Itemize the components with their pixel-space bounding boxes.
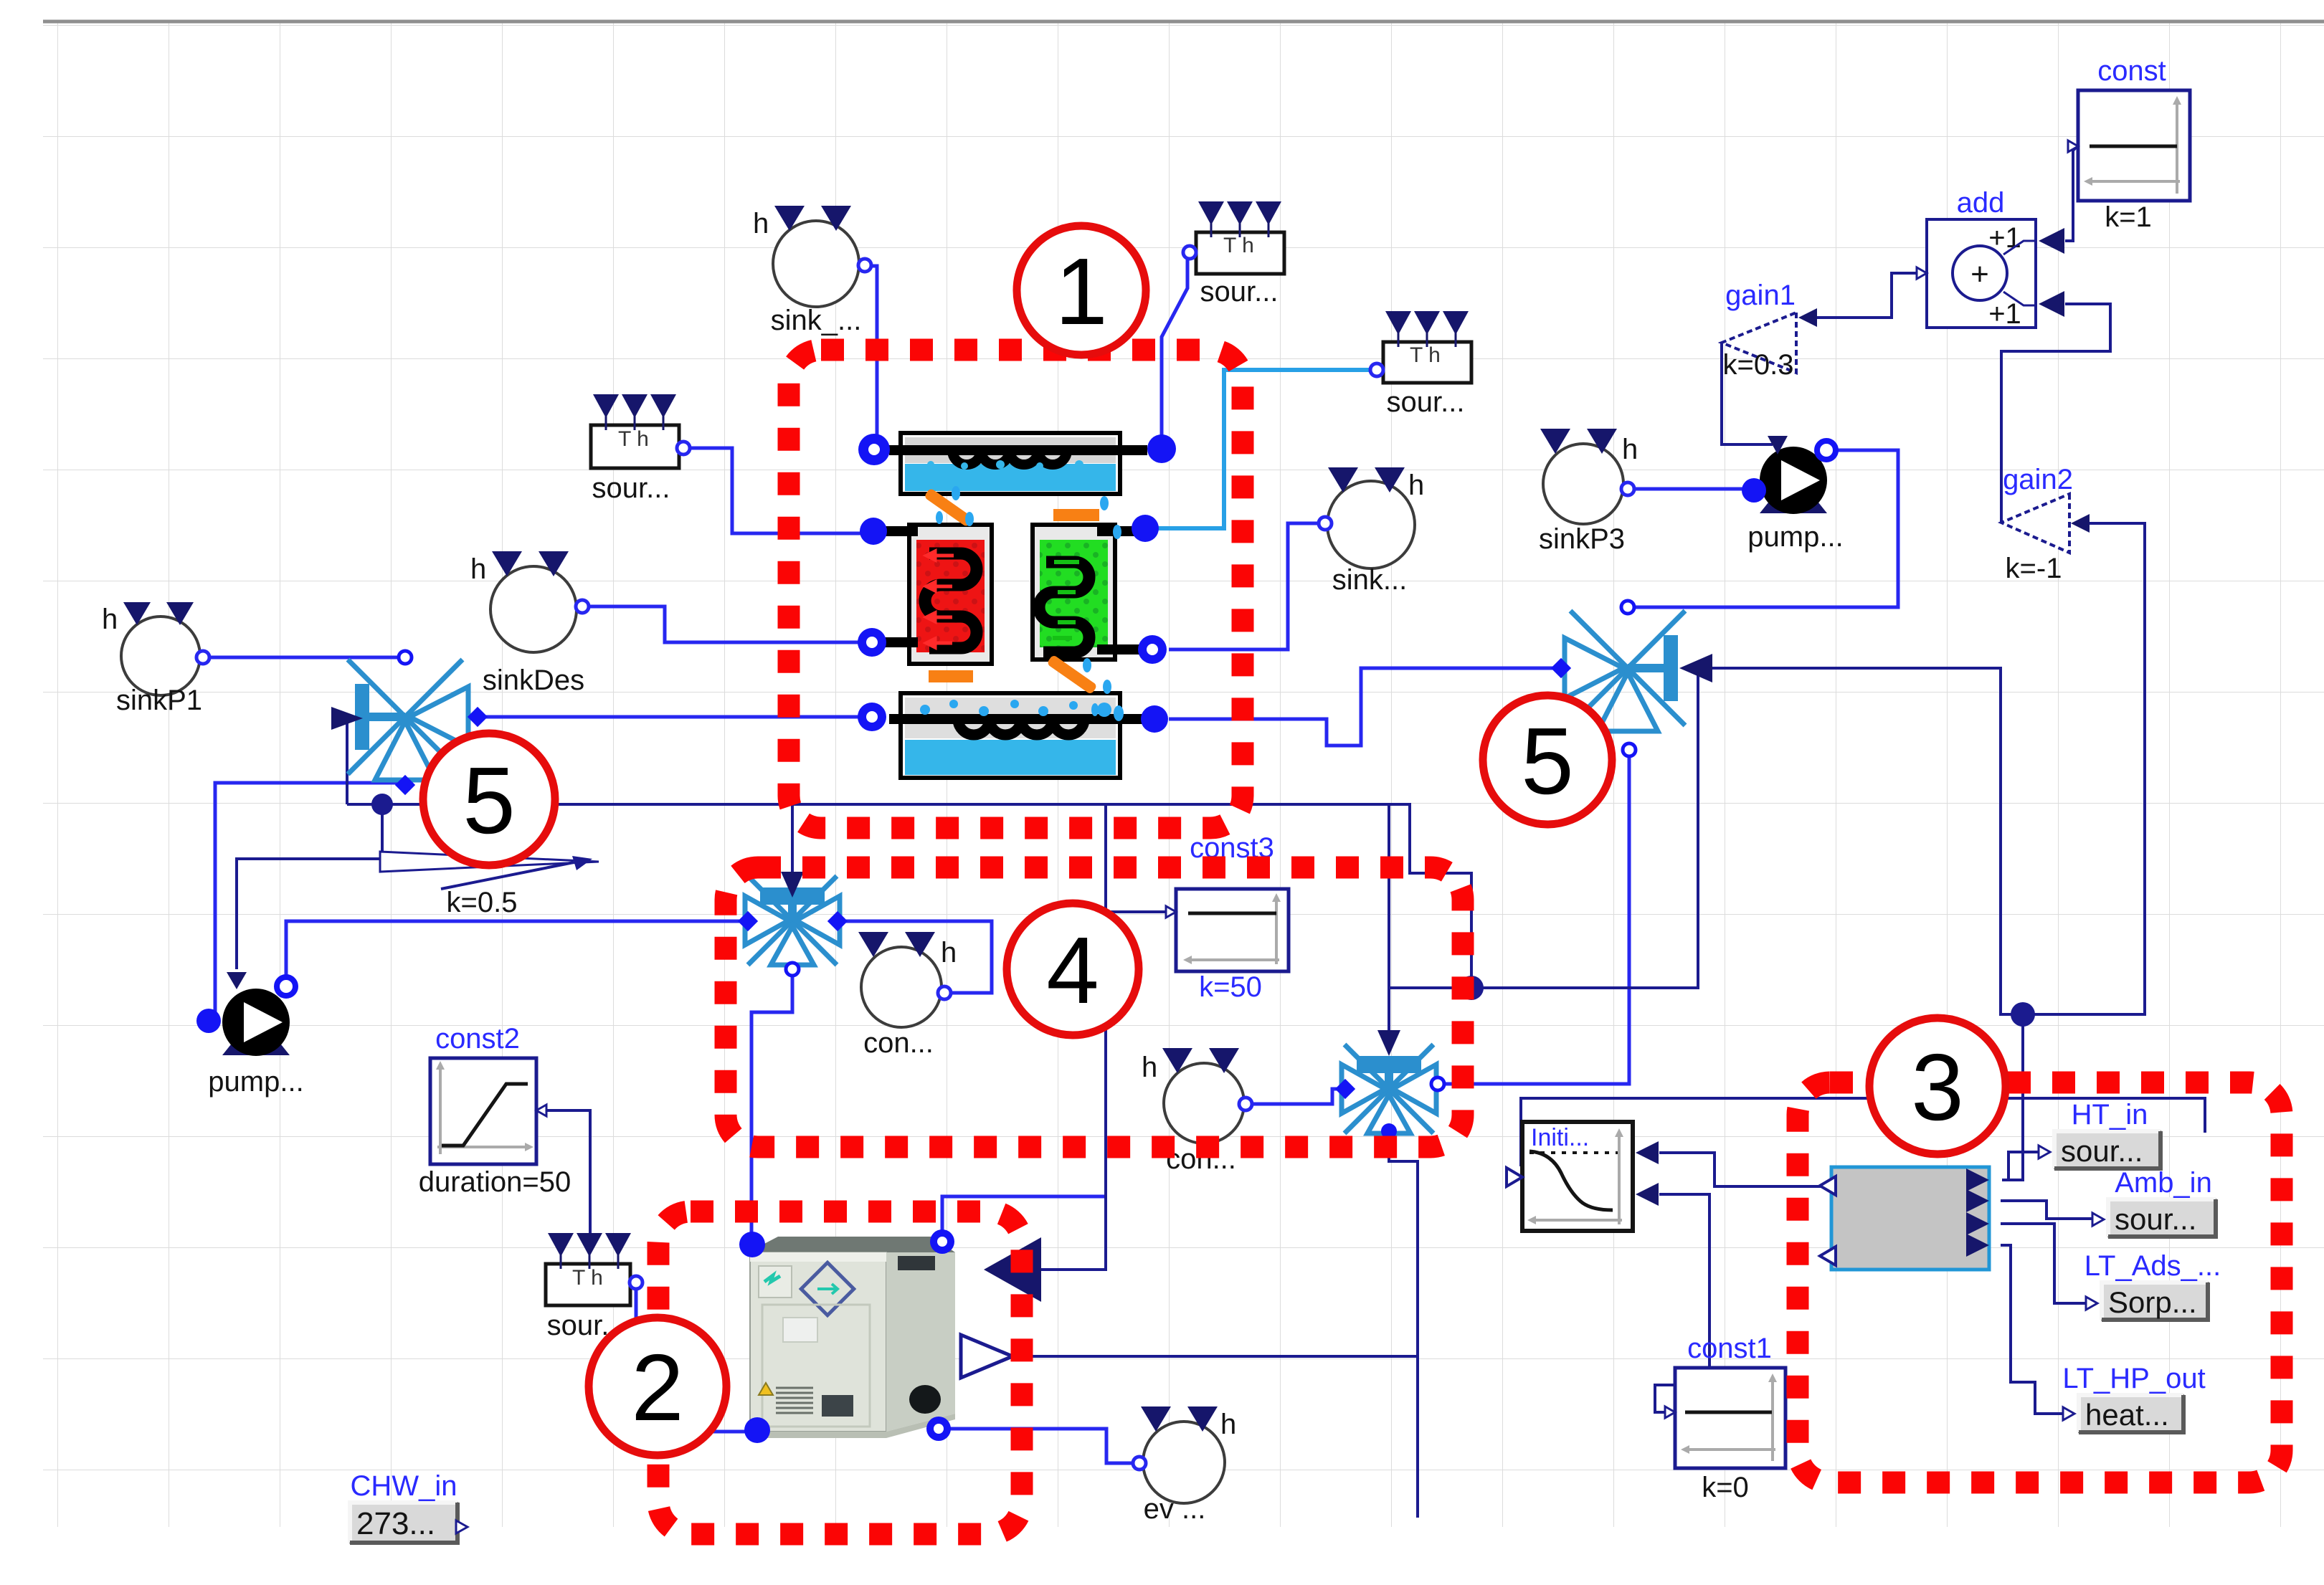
svg-text:sour.: sour. — [547, 1310, 610, 1341]
wire adsorber bottom-right port to sink... — [1169, 523, 1323, 649]
wire adsorber top-right port to sour3 (light blue) — [1147, 370, 1371, 528]
svg-text:sinkP1: sinkP1 — [116, 685, 202, 716]
valve V5R (three-way, handle right) — [1565, 611, 1685, 731]
svg-text:k=-1: k=-1 — [2006, 553, 2062, 584]
svg-text:2: 2 — [631, 1335, 683, 1440]
svg-text:T h: T h — [618, 427, 649, 451]
wire branch to valve V5L actuator arrow — [346, 723, 348, 804]
svg-text:h: h — [102, 604, 118, 635]
svg-text:Amb_in: Amb_in — [2115, 1167, 2212, 1199]
water droplets — [936, 486, 1124, 721]
marker circle 3 — [1869, 1018, 2006, 1154]
sink sink... (middle) — [1319, 467, 1424, 596]
sink sinkP3 — [1539, 429, 1638, 555]
block const1 (k=0) — [1665, 1333, 1785, 1503]
svg-text:1: 1 — [1055, 239, 1107, 344]
svg-text:const1: const1 — [1687, 1333, 1772, 1364]
chiller port bottom-left (filled) — [744, 1417, 770, 1443]
svg-text:T h: T h — [1223, 234, 1254, 257]
port desorber bottom-left (donut) — [858, 628, 886, 657]
gain gain1 (k=0.3) — [1722, 280, 1817, 381]
valve V5R connectors — [1621, 601, 1634, 614]
wire k=0.5 block to pump2 actuator — [237, 859, 394, 969]
valve V5L (three-way, handle left) — [348, 660, 468, 780]
svg-text:k=0.3: k=0.3 — [1723, 349, 1794, 381]
junction dot valve V5R signal — [2011, 1002, 2035, 1027]
svg-text:T h: T h — [572, 1266, 603, 1290]
svg-text:HT_in: HT_in — [2072, 1099, 2148, 1131]
svg-text:sink...: sink... — [1332, 564, 1407, 596]
canvas top border — [43, 20, 2324, 24]
svg-text:Sorp...: Sorp... — [2108, 1285, 2197, 1319]
svg-text:k=50: k=50 — [1199, 971, 1262, 1003]
button sour (Amb_in) — [2092, 1167, 2216, 1237]
marker circle 5 left — [423, 733, 555, 865]
red dashed box 2 — [658, 1212, 1022, 1534]
wire const output down to add input 1 — [2065, 147, 2077, 241]
svg-text:sinkDes: sinkDes — [483, 665, 584, 696]
wire junction to valve V5R actuator line — [1471, 670, 1698, 988]
svg-text:h: h — [1622, 434, 1638, 465]
wire gray box input 4 to heat button — [2001, 1245, 2074, 1414]
svg-text:pump...: pump... — [1747, 521, 1843, 553]
gain gain2 (k=-1) — [2001, 464, 2090, 584]
svg-text:const: const — [2097, 55, 2166, 87]
button heat (LT_HP_out) — [2062, 1363, 2205, 1432]
pump pump1 (top right) — [1742, 436, 1844, 553]
block const3 (k=50) — [1166, 832, 1289, 1003]
pump pump2 (bottom left) — [196, 972, 304, 1098]
svg-text:k=0.5: k=0.5 — [447, 887, 518, 918]
red dashed box 1 — [789, 350, 1243, 828]
svg-text:+: + — [1970, 257, 1989, 292]
adsorption module evaporator — [889, 693, 1147, 778]
svg-text:4: 4 — [1046, 918, 1099, 1023]
wire valve V5L right to evaporator left port — [479, 715, 859, 719]
chiller port top-right (donut) — [930, 1229, 954, 1254]
svg-text:pump...: pump... — [208, 1066, 303, 1098]
adsorption module condenser — [889, 433, 1147, 494]
wire sink_ to condenser left port — [867, 266, 877, 439]
sink sinkP1 — [102, 602, 209, 716]
svg-text:CHW_in: CHW_in — [351, 1470, 457, 1502]
red dashed box 4 — [726, 867, 1463, 1147]
junction dot net const3 right — [1459, 976, 1484, 1000]
wire gray box output to Initi top input — [1659, 1153, 1831, 1186]
block const (k=1) — [2068, 55, 2190, 233]
wire valve V5L bottom to pump2 inlet — [210, 783, 405, 1021]
svg-text:con...: con... — [863, 1027, 934, 1059]
wire valve V4b bottom stub — [1389, 1136, 1418, 1356]
wire sinkP1 to valve V5L top — [199, 656, 404, 660]
valve V4b (box 4 right, handle top) — [1342, 1044, 1436, 1133]
source sour2 (top) — [1183, 201, 1284, 308]
valve V4a actuator arrow — [781, 872, 804, 898]
wire const1 output to Initi bottom input — [1655, 1194, 1709, 1412]
valve V4a connectors — [738, 911, 758, 931]
adsorption module adsorber green chamber — [1033, 525, 1142, 660]
button Sorp (LT_Ads) — [2085, 1250, 2221, 1320]
wire valve V5R bottom to valve V4b right — [1443, 753, 1629, 1084]
wire con1 to valve V4a right — [843, 921, 992, 993]
wire add output to gain1 input — [1804, 273, 1927, 318]
gray box (sorption controller) — [1820, 1167, 1989, 1270]
svg-text:3: 3 — [1911, 1034, 1963, 1140]
svg-text:LT_HP_out: LT_HP_out — [2062, 1363, 2205, 1394]
svg-text:5: 5 — [463, 748, 515, 853]
svg-text:sink_...: sink_... — [771, 305, 862, 336]
svg-text:h: h — [1142, 1052, 1157, 1083]
orange flow marker bottom-right — [1046, 655, 1097, 695]
chiller actuator arrow (big navy) — [984, 1237, 1041, 1302]
sink ev (bottom) — [1133, 1406, 1236, 1525]
svg-text:k=1: k=1 — [2105, 201, 2152, 233]
sink sinkDes — [470, 551, 589, 696]
svg-text:h: h — [753, 208, 769, 239]
marker circle 1 — [1017, 226, 1146, 355]
sink sink_ (top) — [753, 206, 871, 336]
wire gain2 output to add input 2 — [2001, 304, 2110, 523]
svg-text:h: h — [1220, 1409, 1236, 1440]
svg-text:h: h — [1408, 470, 1424, 501]
valve V4b connectors — [1335, 1079, 1355, 1099]
wire HT_in button to gray box input 1 — [2008, 1152, 2050, 1180]
svg-text:sour...: sour... — [1387, 386, 1465, 418]
wire pump1 outlet to valve V5R top — [1632, 450, 1898, 607]
valve V5L connectors — [399, 651, 412, 664]
marker circle 2 — [589, 1318, 726, 1455]
wire const3 output to valve signal net — [1106, 910, 1172, 913]
wire branch to valve V4b actuator arrow — [1388, 804, 1390, 1037]
wire junction down to gray box input 1 — [2002, 1014, 2023, 1180]
source sour1 (left of module) — [591, 394, 690, 504]
wire chiller top-right port up to signal corner — [942, 1196, 1104, 1232]
svg-text:h: h — [470, 553, 486, 585]
marker circle 5 right — [1483, 695, 1612, 824]
svg-text:duration=50: duration=50 — [419, 1166, 571, 1198]
svg-text:LT_Ads_...: LT_Ads_... — [2085, 1250, 2221, 1282]
button CHW_in (273) — [350, 1470, 468, 1543]
svg-text:273...: 273... — [356, 1506, 435, 1541]
chiller port top-left (filled) — [739, 1232, 765, 1257]
svg-text:h: h — [941, 937, 957, 968]
wire gray box input 3 to Sorp button — [2001, 1224, 2097, 1303]
wire const2 output to sour4 input — [541, 1110, 590, 1242]
block add — [1917, 187, 2064, 330]
chiller photo box 2 — [748, 1237, 955, 1438]
orange flow marker top-right — [1053, 509, 1099, 521]
wire gray box input 2 to Amb_in button — [2001, 1201, 2102, 1219]
svg-text:sour...: sour... — [1200, 276, 1279, 308]
wire sour4 down to chiller bottom-left port — [636, 1288, 747, 1432]
svg-text:5: 5 — [1521, 708, 1573, 814]
valve V4b actuator arrow — [1377, 1030, 1400, 1056]
sink con2 (box 4) — [1142, 1048, 1252, 1175]
sink con1 (box 4) — [858, 932, 957, 1059]
svg-text:sour...: sour... — [2061, 1134, 2143, 1168]
wire valve V5R actuator signal to gain2 input — [1708, 523, 2145, 1014]
svg-text:+1: +1 — [1988, 298, 2021, 330]
svg-text:add: add — [1957, 187, 2005, 219]
svg-text:sinkP3: sinkP3 — [1539, 523, 1625, 555]
svg-text:+1: +1 — [1988, 222, 2021, 254]
wire signal down to chiller actuator arrow — [1041, 804, 1106, 1270]
wire branch to valve V4a actuator arrow — [791, 804, 794, 886]
wire sour1 to desorber top-left port — [683, 448, 860, 533]
wire sour2 to condenser right port — [1162, 254, 1187, 446]
wire branch junction down to gain k=0.5 — [382, 804, 391, 862]
wire pump2 outlet to valve V4a left — [286, 921, 744, 984]
red dashed box 3 — [1798, 1082, 2282, 1482]
svg-text:ev ...: ev ... — [1144, 1493, 1206, 1525]
wire valve V4a bottom to chiller top-left port — [751, 972, 792, 1234]
orange flow marker bottom-left — [929, 670, 973, 682]
wire con2 to valve V4b left — [1248, 1089, 1342, 1104]
block const2 (ramp duration=50) — [419, 1023, 571, 1198]
port adsorber top-right (filled) — [1132, 515, 1159, 542]
svg-text:sour...: sour... — [592, 472, 670, 504]
valve V5L actuator arrow — [331, 707, 363, 730]
svg-text:gain1: gain1 — [1725, 280, 1796, 311]
wire sinkDes to desorber bottom-left port — [579, 606, 859, 642]
button sour (HT_in) — [2039, 1099, 2161, 1168]
svg-text:gain2: gain2 — [2003, 464, 2073, 495]
svg-text:T h: T h — [1410, 343, 1441, 367]
gain k=0.5 block — [380, 852, 599, 918]
orange flow marker top-left — [924, 487, 974, 528]
wire signal net right leg to junction — [347, 804, 1471, 988]
port evaporator right (filled) — [1141, 705, 1168, 733]
port adsorber bottom-right (donut) — [1138, 635, 1167, 664]
wire gain1 output to pump1 actuator — [1722, 343, 1773, 444]
chiller output triangle — [961, 1335, 1012, 1378]
port condenser right (filled) — [1147, 434, 1176, 463]
port desorber top-left (filled) — [860, 518, 887, 545]
valve V5R actuator arrow — [1679, 654, 1712, 682]
source sour3 (right) — [1370, 311, 1471, 418]
wire chiller output triangle right and down — [1012, 1356, 1418, 1518]
svg-text:k=0: k=0 — [1702, 1472, 1749, 1503]
wire chiller bottom-right port to ev circle — [950, 1429, 1136, 1463]
svg-text:const2: const2 — [435, 1023, 520, 1055]
wire Initi output up and right to HT_in — [1521, 1098, 2205, 1166]
port evaporator left (donut) — [858, 703, 886, 731]
adsorption module desorber red chamber — [885, 525, 992, 664]
valve V4a (box 4 left, handle top) — [745, 876, 840, 965]
chiller port bottom-right (donut) — [926, 1417, 951, 1441]
marker circle 4 — [1007, 903, 1139, 1035]
wire sinkP3 to pump1 inlet — [1631, 487, 1751, 491]
wire evaporator right port to valve V5R left — [1169, 668, 1559, 746]
port condenser left (donut) — [858, 434, 890, 465]
source sour4 (bottom, fed by const2) — [546, 1233, 642, 1341]
block Initi (initialization curve) — [1507, 1122, 1659, 1231]
junction dot net const3 left — [371, 794, 393, 815]
svg-text:Initi...: Initi... — [1531, 1124, 1589, 1151]
svg-text:heat...: heat... — [2085, 1398, 2169, 1432]
svg-text:sour...: sour... — [2115, 1202, 2196, 1236]
